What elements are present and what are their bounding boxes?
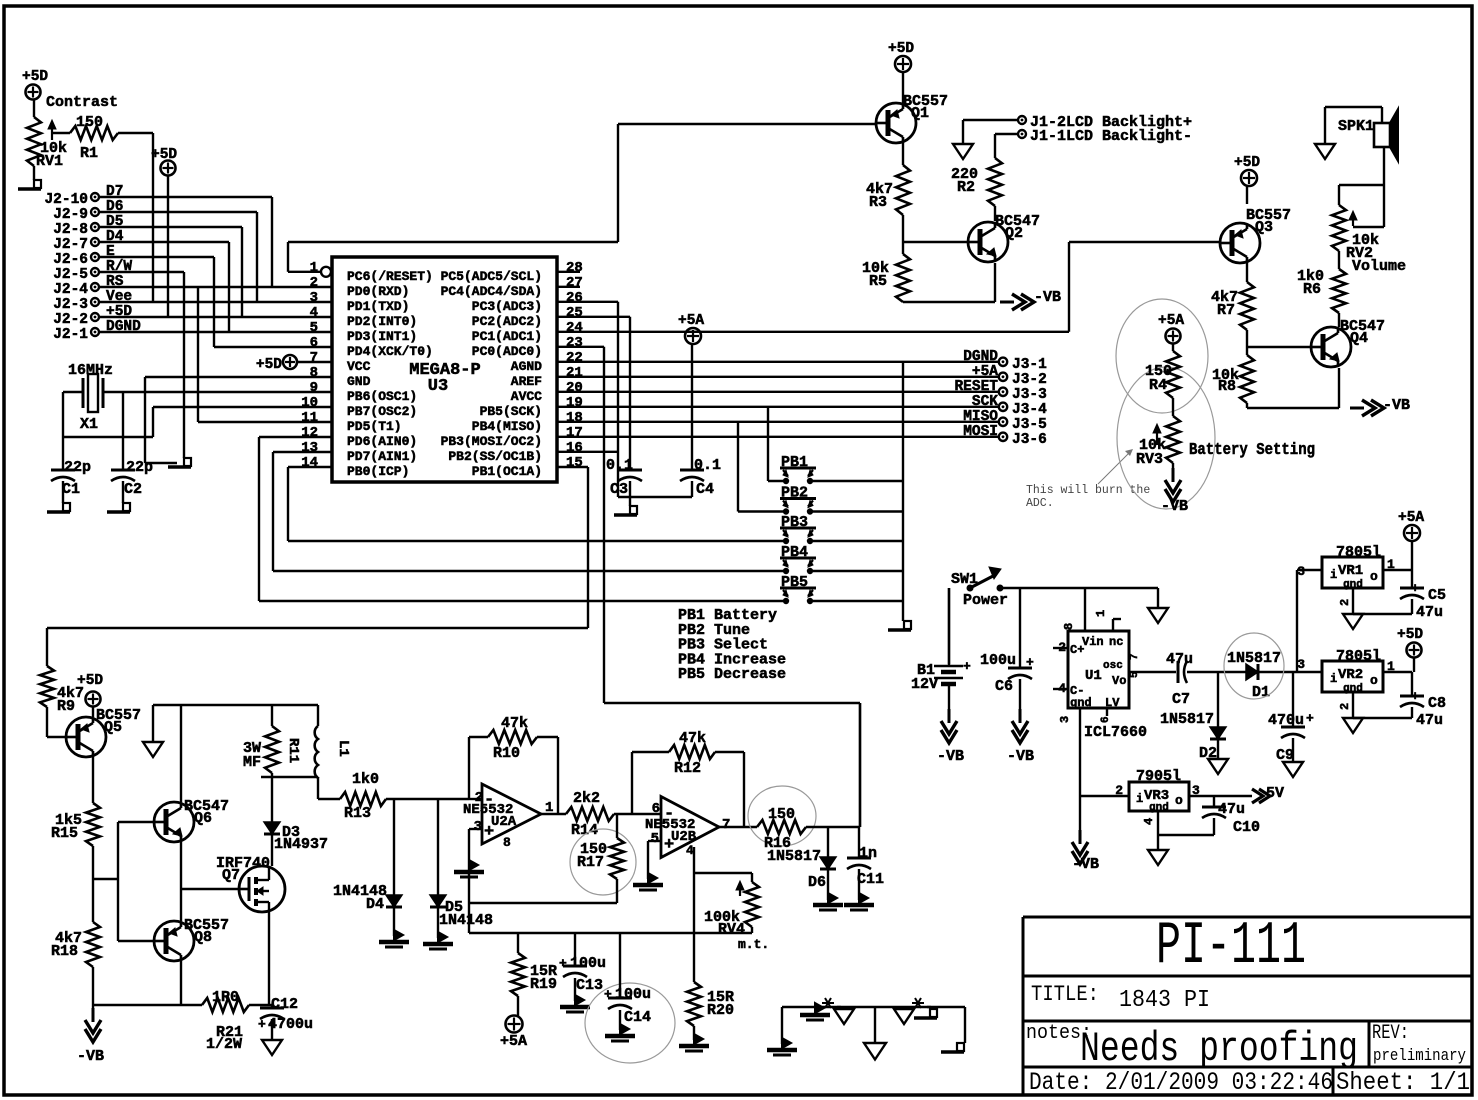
svg-text:8: 8	[1062, 623, 1076, 630]
svg-text:MF: MF	[243, 754, 261, 771]
svg-text:3: 3	[1297, 657, 1305, 672]
svg-text:Needs proofing: Needs proofing	[1080, 1025, 1358, 1073]
svg-text:22: 22	[566, 350, 583, 366]
svg-text:LV: LV	[1105, 696, 1120, 710]
svg-text:PC4(ADC4/SDA): PC4(ADC4/SDA)	[441, 284, 542, 299]
svg-text:4: 4	[310, 305, 318, 321]
svg-text:2: 2	[1115, 783, 1123, 798]
svg-text:PB3(MOSI/OC2): PB3(MOSI/OC2)	[441, 434, 542, 449]
svg-text:Contrast: Contrast	[46, 94, 118, 111]
svg-text:12: 12	[301, 425, 318, 441]
svg-text:PD7(AIN1): PD7(AIN1)	[347, 449, 417, 464]
svg-text:-VB: -VB	[1007, 748, 1034, 765]
svg-text:D6: D6	[808, 874, 826, 891]
svg-text:26: 26	[566, 290, 583, 306]
svg-text:+: +	[604, 987, 612, 1002]
svg-text:C5: C5	[1428, 587, 1446, 604]
svg-text:i: i	[1330, 568, 1337, 582]
svg-text:nc: nc	[1109, 635, 1123, 649]
svg-text:Q5: Q5	[104, 719, 122, 736]
svg-text:4: 4	[1142, 818, 1156, 825]
svg-text:100u: 100u	[615, 986, 651, 1003]
svg-text:R8: R8	[1218, 378, 1236, 395]
svg-text:1/2W: 1/2W	[206, 1036, 242, 1053]
svg-text:-VB: -VB	[1072, 856, 1099, 873]
svg-text:2: 2	[1338, 599, 1352, 606]
svg-text:This will burn the: This will burn the	[1026, 484, 1150, 497]
svg-text:2: 2	[1338, 703, 1352, 710]
svg-text:RV1: RV1	[36, 153, 63, 170]
svg-text:C2: C2	[124, 481, 142, 498]
svg-text:PD3(INT1): PD3(INT1)	[347, 329, 417, 344]
svg-text:Q6: Q6	[194, 810, 212, 827]
svg-text:J2-7: J2-7	[53, 237, 88, 253]
svg-text:J3-2: J3-2	[1012, 372, 1047, 388]
svg-text:8: 8	[310, 365, 318, 381]
svg-text:MOSI: MOSI	[963, 424, 998, 440]
svg-text:TITLE:: TITLE:	[1031, 982, 1099, 1007]
svg-text:J3-5: J3-5	[1012, 417, 1047, 433]
svg-text:R12: R12	[674, 760, 701, 777]
svg-text:J3-4: J3-4	[1012, 402, 1047, 418]
svg-text:PD4(XCK/T0): PD4(XCK/T0)	[347, 344, 433, 359]
svg-text:o: o	[1370, 673, 1378, 688]
svg-text:C8: C8	[1428, 695, 1446, 712]
svg-text:25: 25	[566, 305, 583, 321]
svg-text:7: 7	[310, 350, 318, 366]
svg-text:Vo: Vo	[1112, 674, 1126, 688]
svg-text:+: +	[559, 956, 567, 971]
svg-text:1: 1	[310, 260, 318, 276]
svg-text:PD0(RXD): PD0(RXD)	[347, 284, 409, 299]
svg-text:osc: osc	[1103, 660, 1123, 672]
svg-text:preliminary: preliminary	[1373, 1047, 1466, 1066]
svg-text:1: 1	[1094, 610, 1108, 617]
svg-text:+5A: +5A	[1158, 313, 1184, 329]
svg-text:PC2(ADC2): PC2(ADC2)	[472, 314, 542, 329]
svg-text:+5D: +5D	[1234, 155, 1260, 171]
svg-text:7: 7	[722, 817, 730, 833]
svg-text:6: 6	[1100, 716, 1112, 723]
svg-text:150: 150	[76, 114, 103, 131]
svg-text:20: 20	[566, 380, 583, 396]
svg-text:150: 150	[768, 806, 795, 823]
svg-text:-VB: -VB	[77, 1048, 104, 1065]
svg-text:Q1: Q1	[911, 105, 929, 122]
svg-text:47u: 47u	[1166, 651, 1193, 668]
svg-text:+5A: +5A	[500, 1033, 527, 1050]
svg-text:R1: R1	[80, 145, 98, 162]
svg-text:J2-2: J2-2	[53, 312, 88, 328]
svg-text:12V: 12V	[911, 676, 938, 693]
svg-text:PC3(ADC3): PC3(ADC3)	[472, 299, 542, 314]
svg-text:RESET: RESET	[954, 379, 998, 395]
svg-text:o: o	[1370, 569, 1378, 584]
svg-text:+5D: +5D	[888, 41, 914, 57]
svg-text:3: 3	[474, 819, 482, 835]
svg-text:14: 14	[301, 455, 318, 471]
svg-text:PC6(/RESET): PC6(/RESET)	[347, 269, 433, 284]
svg-text:C4: C4	[696, 481, 714, 498]
svg-text:7805l: 7805l	[1336, 544, 1381, 561]
svg-text:2: 2	[310, 275, 318, 291]
svg-text:18: 18	[566, 410, 583, 426]
svg-text:R3: R3	[869, 194, 887, 211]
svg-text:6: 6	[652, 801, 660, 817]
svg-text:R5: R5	[869, 273, 887, 290]
svg-text:R15: R15	[51, 825, 78, 842]
svg-text:R13: R13	[344, 805, 371, 822]
svg-text:Q4: Q4	[1350, 330, 1368, 347]
svg-text:RV4: RV4	[718, 921, 745, 938]
svg-text:3: 3	[1297, 564, 1305, 579]
svg-text:16MHz: 16MHz	[68, 362, 113, 379]
svg-text:7905l: 7905l	[1136, 768, 1181, 785]
svg-text:R18: R18	[51, 943, 78, 960]
svg-text:R2: R2	[957, 179, 975, 196]
svg-text:J2-6: J2-6	[53, 252, 88, 268]
svg-text:1N5817: 1N5817	[1227, 650, 1281, 667]
svg-text:-VB: -VB	[1161, 498, 1188, 515]
svg-text:16: 16	[566, 440, 583, 456]
svg-text:PB6(OSC1): PB6(OSC1)	[347, 389, 417, 404]
svg-text:+5D: +5D	[77, 673, 103, 689]
svg-text:1: 1	[1387, 659, 1395, 674]
svg-text:PB5 Decrease: PB5 Decrease	[678, 666, 786, 683]
svg-text:R17: R17	[577, 854, 604, 871]
svg-text:C7: C7	[1172, 691, 1190, 708]
svg-text:47k: 47k	[679, 730, 706, 747]
svg-text:Sheet: 1/1: Sheet: 1/1	[1336, 1068, 1470, 1097]
svg-text:J3-3: J3-3	[1012, 387, 1047, 403]
svg-text:23: 23	[566, 335, 583, 351]
svg-text:6: 6	[310, 335, 318, 351]
svg-text:-VB: -VB	[1383, 397, 1410, 414]
svg-text:J2-9: J2-9	[53, 207, 88, 223]
svg-text:3: 3	[1192, 783, 1200, 798]
svg-text:AGND: AGND	[511, 359, 542, 374]
svg-text:i: i	[1136, 792, 1143, 806]
svg-text:Q8: Q8	[194, 929, 212, 946]
svg-text:-VB: -VB	[1034, 289, 1061, 306]
svg-text:Q3: Q3	[1255, 219, 1273, 236]
svg-text:PD6(AIN0): PD6(AIN0)	[347, 434, 417, 449]
svg-text:PB5(SCK): PB5(SCK)	[480, 404, 542, 419]
svg-text:U2A: U2A	[491, 814, 517, 830]
svg-text:+5D: +5D	[256, 357, 282, 373]
svg-text:R20: R20	[707, 1002, 734, 1019]
svg-text:3: 3	[310, 290, 318, 306]
svg-text:ICL7660: ICL7660	[1084, 724, 1147, 741]
svg-text:1N5817: 1N5817	[767, 848, 821, 865]
svg-text:J1-1LCD Backlight-: J1-1LCD Backlight-	[1030, 128, 1192, 145]
svg-text:1k0: 1k0	[352, 771, 379, 788]
svg-text:+5A: +5A	[678, 313, 704, 329]
svg-text:Q7: Q7	[222, 867, 240, 884]
svg-text:R4: R4	[1149, 377, 1167, 394]
svg-text:11: 11	[301, 410, 318, 426]
svg-text:R7: R7	[1217, 302, 1235, 319]
svg-text:J3-1: J3-1	[1012, 357, 1047, 373]
svg-text:VR1: VR1	[1338, 563, 1363, 579]
svg-text:R9: R9	[57, 698, 75, 715]
svg-text:REV:: REV:	[1372, 1022, 1409, 1045]
svg-text:R11: R11	[285, 738, 301, 763]
svg-text:13: 13	[301, 440, 318, 456]
svg-text:PC1(ADC1): PC1(ADC1)	[472, 329, 542, 344]
svg-text:m.t.: m.t.	[738, 937, 769, 952]
svg-text:47u: 47u	[1416, 604, 1443, 621]
svg-text:U1: U1	[1085, 668, 1102, 684]
svg-text:PB7(OSC2): PB7(OSC2)	[347, 404, 417, 419]
svg-text:R6: R6	[1303, 281, 1321, 298]
svg-text:10: 10	[301, 395, 318, 411]
svg-text:+5D: +5D	[22, 69, 48, 85]
svg-text:+5D: +5D	[1397, 627, 1423, 643]
svg-text:J2-10: J2-10	[44, 192, 88, 208]
svg-text:C6: C6	[995, 678, 1013, 695]
svg-text:24: 24	[566, 320, 583, 336]
svg-text:5: 5	[310, 320, 318, 336]
svg-text:5V: 5V	[1266, 785, 1284, 802]
svg-text:100u: 100u	[570, 955, 606, 972]
svg-text:1843 PI: 1843 PI	[1119, 987, 1210, 1014]
svg-text:R19: R19	[530, 976, 557, 993]
svg-text:L1: L1	[335, 740, 351, 757]
svg-text:C14: C14	[624, 1009, 651, 1026]
svg-text:U3: U3	[428, 377, 448, 396]
svg-text:+: +	[1306, 711, 1314, 726]
svg-text:9: 9	[310, 380, 318, 396]
svg-text:22p: 22p	[126, 459, 153, 476]
svg-text:PC5(ADC5/SCL): PC5(ADC5/SCL)	[441, 269, 542, 284]
svg-text:47k: 47k	[501, 715, 528, 732]
svg-text:J2-1: J2-1	[53, 327, 88, 343]
svg-text:+5A: +5A	[972, 364, 998, 380]
svg-text:100u: 100u	[980, 652, 1016, 669]
svg-text:27: 27	[566, 275, 583, 291]
svg-text:C12: C12	[271, 996, 298, 1013]
svg-text:C13: C13	[576, 977, 603, 994]
svg-text:PD5(T1): PD5(T1)	[347, 419, 402, 434]
svg-text:SCK: SCK	[972, 394, 998, 410]
svg-text:19: 19	[566, 395, 583, 411]
svg-text:1R0: 1R0	[212, 989, 239, 1006]
svg-text:D4: D4	[366, 896, 384, 913]
svg-text:X1: X1	[80, 416, 98, 433]
svg-text:GND: GND	[347, 374, 371, 389]
svg-text:PD1(TXD): PD1(TXD)	[347, 299, 409, 314]
svg-text:ADC.: ADC.	[1026, 497, 1054, 510]
svg-text:+5A: +5A	[1398, 510, 1424, 526]
svg-text:15: 15	[566, 455, 583, 471]
svg-text:J2-4: J2-4	[53, 282, 88, 298]
svg-text:R10: R10	[493, 745, 520, 762]
svg-text:Volume: Volume	[1352, 258, 1406, 275]
svg-text:J2-5: J2-5	[53, 267, 88, 283]
svg-text:PB0(ICP): PB0(ICP)	[347, 464, 409, 479]
svg-text:RV3: RV3	[1136, 451, 1163, 468]
svg-text:7: 7	[1129, 653, 1141, 660]
svg-text:Q2: Q2	[1005, 225, 1023, 242]
svg-text:28: 28	[566, 260, 583, 276]
svg-text:J2-8: J2-8	[53, 222, 88, 238]
svg-text:o: o	[1175, 793, 1183, 808]
svg-text:J2-3: J2-3	[53, 297, 88, 313]
svg-text:5: 5	[651, 831, 659, 847]
svg-text:8: 8	[503, 835, 511, 850]
svg-text:+: +	[258, 1017, 266, 1032]
svg-text:1N4937: 1N4937	[274, 836, 328, 853]
svg-text:1N5817: 1N5817	[1160, 711, 1214, 728]
svg-text:PD2(INT0): PD2(INT0)	[347, 314, 417, 329]
svg-text:2k2: 2k2	[573, 790, 600, 807]
svg-text:VCC: VCC	[347, 359, 371, 374]
svg-text:1: 1	[1387, 557, 1395, 572]
svg-text:i: i	[1330, 672, 1337, 686]
svg-text:7805l: 7805l	[1336, 648, 1381, 665]
svg-text:C11: C11	[857, 871, 884, 888]
svg-text:J3-6: J3-6	[1012, 432, 1047, 448]
svg-text:C3: C3	[610, 481, 628, 498]
svg-text:MISO: MISO	[963, 409, 998, 425]
svg-text:4700u: 4700u	[268, 1016, 313, 1033]
svg-text:21: 21	[566, 365, 583, 381]
svg-text:PB2(SS/OC1B): PB2(SS/OC1B)	[448, 449, 542, 464]
svg-text:C1: C1	[62, 481, 80, 498]
svg-text:+: +	[963, 659, 971, 674]
svg-text:gnd: gnd	[1070, 696, 1092, 710]
svg-text:Power: Power	[963, 592, 1008, 609]
svg-text:PB1(OC1A): PB1(OC1A)	[472, 464, 542, 479]
svg-text:PI-111: PI-111	[1156, 913, 1306, 981]
svg-text:DGND: DGND	[963, 349, 998, 365]
svg-text:AVCC: AVCC	[511, 389, 542, 404]
svg-text:47u: 47u	[1416, 712, 1443, 729]
svg-text:1N4148: 1N4148	[439, 912, 493, 929]
svg-text:3: 3	[1058, 716, 1072, 723]
svg-text:PC0(ADC0): PC0(ADC0)	[472, 344, 542, 359]
svg-text:Battery Setting: Battery Setting	[1189, 441, 1315, 460]
svg-text:-VB: -VB	[937, 748, 964, 765]
svg-text:22p: 22p	[64, 459, 91, 476]
svg-text:C10: C10	[1233, 819, 1260, 836]
svg-text:Vin: Vin	[1082, 635, 1104, 649]
svg-text:17: 17	[566, 425, 583, 441]
svg-text:SPK1: SPK1	[1338, 118, 1374, 135]
svg-text:AREF: AREF	[511, 374, 542, 389]
svg-text:Date: 2/01/2009 03:22:46: Date: 2/01/2009 03:22:46	[1029, 1068, 1333, 1097]
svg-text:PB4(MISO): PB4(MISO)	[472, 419, 542, 434]
svg-text:VR2: VR2	[1338, 667, 1363, 683]
